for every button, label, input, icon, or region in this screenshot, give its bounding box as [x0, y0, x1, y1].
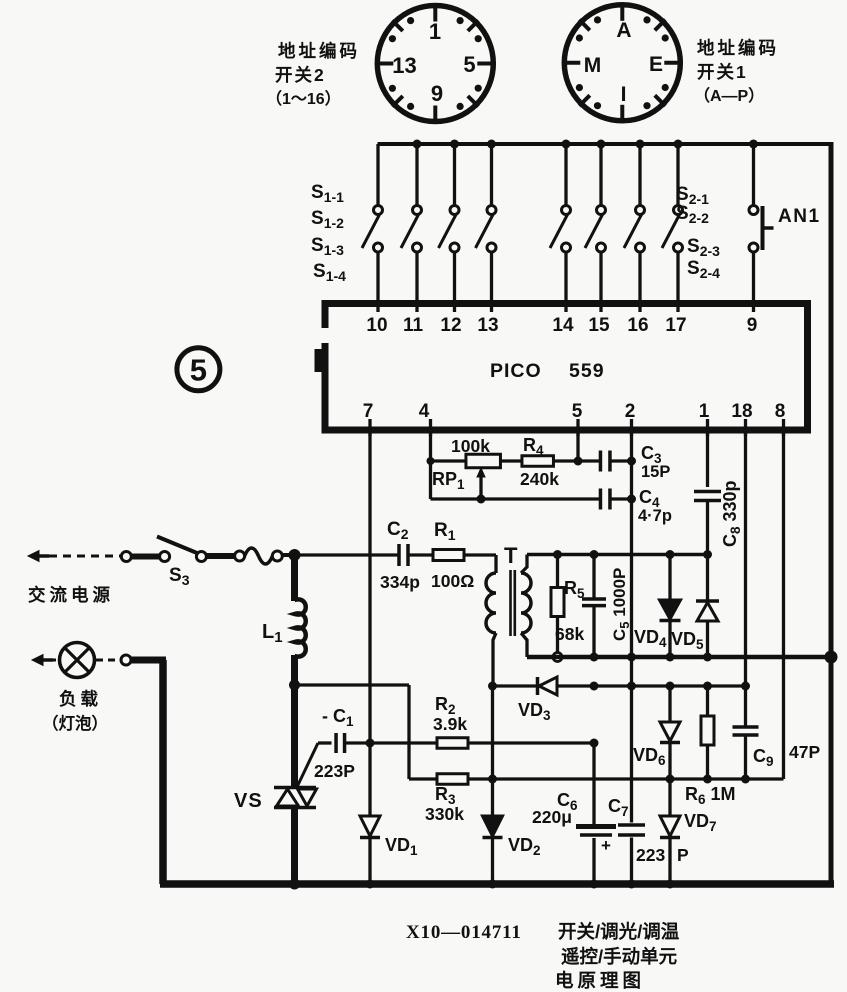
wire gate corner down — [407, 685, 410, 779]
svg-text:P: P — [677, 845, 689, 865]
diode VD4 — [660, 555, 681, 658]
wire VD2 column — [491, 686, 494, 816]
node main-top junction — [289, 549, 301, 561]
diode VD5 — [696, 555, 719, 658]
svg-text:7: 7 — [363, 401, 374, 422]
node C3-pin2 — [627, 457, 636, 466]
node R3-VD2 — [488, 775, 497, 784]
switch S2-3 — [624, 140, 645, 313]
wire VD3 row left — [493, 684, 539, 687]
svg-text:2: 2 — [625, 401, 636, 422]
wire pin7 column — [368, 433, 371, 816]
potentiometer RP1 100k — [466, 454, 501, 499]
node row686 pin18-C9 — [741, 682, 750, 691]
wire C1 diagonal to gate — [297, 743, 318, 787]
switch S1-3 — [439, 140, 460, 313]
resistor R3 330k — [437, 774, 468, 785]
wire right border — [829, 142, 834, 884]
node VD1 bus — [366, 880, 375, 889]
svg-text:11: 11 — [403, 315, 424, 336]
svg-text:16: 16 — [627, 315, 648, 336]
node RP1 wiper junction — [477, 495, 486, 504]
svg-text:+: + — [601, 836, 611, 855]
node VS bottom — [289, 879, 300, 890]
resistor R5 68k — [551, 555, 564, 653]
label address-code switch2 (1~16) — [266, 41, 360, 108]
terminal plug left — [121, 552, 131, 562]
terminal lamp — [121, 655, 131, 665]
rotary address dial switch 2 (1-16) — [375, 4, 495, 124]
node VD4 top — [666, 550, 675, 559]
wire VD3 row right — [557, 684, 746, 687]
svg-text:8: 8 — [775, 401, 786, 422]
terminal fuse right — [272, 551, 282, 561]
svg-text:15P: 15P — [641, 463, 670, 481]
svg-text:559: 559 — [569, 360, 605, 382]
svg-text:68k: 68k — [555, 624, 584, 644]
wire C2-R1 — [408, 553, 433, 556]
capacitor C8 330p — [694, 490, 721, 494]
svg-text:（灯泡）: （灯泡） — [42, 713, 108, 733]
svg-text:1: 1 — [699, 401, 710, 422]
svg-text:13: 13 — [392, 53, 416, 78]
svg-text:47P: 47P — [789, 742, 820, 762]
svg-text:5: 5 — [572, 401, 583, 422]
node C7 bus — [627, 880, 636, 889]
svg-text:223: 223 — [636, 845, 665, 865]
terminal fuse left — [235, 551, 245, 561]
wire fuse to node — [282, 553, 296, 557]
svg-text:9: 9 — [747, 315, 758, 336]
capacitor C3 15p — [599, 451, 603, 472]
inductor L1 — [295, 599, 306, 656]
svg-text:10: 10 — [366, 315, 387, 336]
wire mid bus — [527, 655, 831, 660]
node C6 bus — [590, 880, 599, 889]
wire plug link — [132, 554, 160, 560]
pin stubs bottom — [370, 419, 784, 436]
switch S2-1 — [550, 140, 571, 313]
IC left-border notch — [318, 328, 331, 343]
wire pin18 column — [744, 433, 747, 686]
svg-text:（A—P）: （A—P） — [694, 87, 764, 105]
pushbutton AN1 — [749, 140, 774, 313]
capacitor C4 4.7p — [599, 489, 603, 510]
node R6 bottom — [703, 775, 712, 784]
circled figure number 5 — [177, 348, 220, 391]
node T-VD2 junction — [488, 682, 497, 691]
wire lamp thick — [132, 657, 167, 664]
rotary address dial switch 1 (A-P) — [562, 3, 682, 123]
svg-text:334p: 334p — [380, 572, 420, 592]
label 223 P — [636, 845, 689, 865]
wire node to L1 — [291, 552, 298, 601]
wire C6 column — [592, 743, 595, 824]
wire pin8 column — [782, 433, 785, 779]
svg-text:C5 1000P: C5 1000P — [610, 568, 632, 641]
IC U1 PICO 559 box — [325, 304, 808, 431]
switch S1-2 — [401, 140, 422, 313]
wire C1 to R2 — [345, 741, 438, 744]
svg-text:3.9k: 3.9k — [433, 714, 467, 734]
wire dashed AC — [49, 555, 120, 558]
svg-text:（1～16）: （1～16） — [266, 90, 341, 108]
wire pin5 down — [576, 433, 579, 461]
node C4-pin2 — [627, 495, 636, 504]
node right-bus junction — [825, 651, 838, 664]
svg-text:PICO: PICO — [490, 360, 542, 382]
diode VD6 — [660, 686, 680, 779]
wire pin2 column — [630, 433, 633, 884]
terminal S3 right contact — [196, 552, 206, 562]
svg-text:负载: 负载 — [59, 689, 102, 709]
svg-text:12: 12 — [440, 315, 461, 336]
svg-text:I: I — [621, 83, 627, 106]
diode VD7 — [660, 779, 680, 884]
svg-text:AN1: AN1 — [778, 206, 821, 227]
resistor R2 3.9k — [437, 738, 468, 749]
wire R1 to T — [464, 553, 496, 556]
wire R3 row — [409, 777, 437, 780]
capacitor C9 47p — [733, 686, 759, 779]
wire left thick vertical — [159, 660, 167, 884]
wire pin1 down — [706, 433, 709, 487]
lamp bulb — [60, 643, 95, 678]
transformer T — [486, 555, 531, 687]
wire gate horizontal — [295, 683, 410, 686]
svg-text:A: A — [616, 19, 631, 42]
node VD2 bus — [488, 880, 497, 889]
switch S2-2 — [585, 140, 606, 313]
label address-code switch1 (A-P) — [694, 38, 779, 105]
wire S3 to fuse — [207, 553, 236, 559]
wire R2 to C6 node — [468, 741, 594, 744]
node C9 bottom — [741, 775, 750, 784]
svg-text:T: T — [504, 543, 518, 568]
svg-text:开关2: 开关2 — [275, 65, 326, 85]
node R5 top — [553, 550, 562, 559]
node VD5 bottom — [703, 653, 712, 662]
node pin2-mid — [627, 653, 636, 662]
wire L1 to VS — [291, 655, 298, 788]
wire dashed lamp-right — [96, 659, 119, 662]
resistor R6 1M — [701, 686, 714, 779]
svg-text:17: 17 — [665, 315, 686, 336]
svg-text:5: 5 — [190, 353, 207, 388]
svg-text:M: M — [584, 54, 602, 77]
svg-text:14: 14 — [552, 315, 574, 336]
wire RP1 row — [431, 459, 632, 462]
node C5 bottom — [590, 653, 599, 662]
svg-text:开关/调光/调温: 开关/调光/调温 — [558, 921, 680, 942]
node R2-C6 — [590, 739, 599, 748]
svg-text:X10—014711: X10—014711 — [406, 922, 522, 943]
node VD6 bottom-row — [666, 775, 675, 784]
terminal arrow load — [32, 655, 43, 666]
svg-text:220μ: 220μ — [532, 807, 572, 827]
terminal arrow AC in — [28, 551, 39, 562]
capacitor C5 1000p — [582, 555, 606, 658]
node C5 top — [590, 550, 599, 559]
svg-text:电原理图: 电原理图 — [555, 970, 645, 991]
node row686 C6col — [590, 682, 599, 691]
svg-text:240k: 240k — [520, 469, 559, 489]
capacitor C2 334p — [397, 544, 401, 566]
svg-text:100Ω: 100Ω — [431, 571, 474, 591]
svg-text:223P: 223P — [314, 761, 355, 781]
wire R3 to right — [468, 777, 784, 780]
node C8 bottom — [703, 550, 712, 559]
wire VS to bus — [291, 807, 298, 886]
svg-text:地址编码: 地址编码 — [278, 41, 360, 61]
diode VD2 — [483, 816, 503, 884]
svg-text:开关1: 开关1 — [697, 62, 748, 82]
wire osc line — [527, 553, 708, 557]
switch S1-4 — [476, 140, 497, 313]
terminal S3 left contact — [160, 552, 170, 562]
resistor R4 240k — [522, 456, 554, 467]
svg-text:4·7p: 4·7p — [638, 507, 672, 525]
fuse coil FU — [245, 548, 273, 564]
switch S1-1 — [362, 144, 383, 312]
capacitor C1 223p — [334, 733, 338, 753]
svg-text:330k: 330k — [425, 804, 464, 824]
switch S2-4 — [662, 140, 683, 313]
svg-text:交流电源: 交流电源 — [28, 585, 114, 605]
svg-text:13: 13 — [477, 315, 498, 336]
node pin7-gate junction — [366, 739, 375, 748]
svg-text:遥控/手动单元: 遥控/手动单元 — [561, 946, 678, 967]
triac VS — [274, 788, 317, 808]
node row686 VD6 — [666, 682, 675, 691]
wire pin4 down — [429, 433, 432, 499]
wire C8 to osc line — [706, 501, 709, 555]
svg-text:4: 4 — [419, 401, 430, 422]
wire node to C2 — [295, 553, 400, 556]
svg-text:E: E — [649, 53, 663, 76]
svg-text:R6 1M: R6 1M — [685, 784, 736, 807]
capacitor C6 220u polarized — [576, 827, 616, 885]
wire dashed lamp-left — [50, 659, 58, 662]
node pin4-junction — [427, 457, 435, 465]
switch S3 lever — [157, 537, 197, 554]
svg-text:5: 5 — [463, 52, 475, 77]
diode VD3 — [538, 677, 558, 695]
node VD4 bottom — [666, 653, 675, 662]
node row686 R6 — [703, 682, 712, 691]
node VD7 bus — [666, 880, 675, 889]
wire top bus — [378, 142, 834, 146]
svg-text:地址编码: 地址编码 — [697, 38, 779, 58]
resistor R1 100ohm — [433, 550, 464, 561]
node gate junction — [289, 680, 300, 691]
svg-text:1: 1 — [429, 19, 441, 44]
node pin5-junction — [574, 457, 583, 466]
node row686 pin2col — [627, 682, 636, 691]
label IC name PICO 559 — [490, 360, 605, 382]
wire bottom ground bus — [160, 880, 834, 888]
svg-text:VS: VS — [234, 790, 263, 812]
terminal R5 bottom circle — [553, 653, 562, 662]
svg-text:15: 15 — [588, 315, 610, 336]
diode VD1 — [360, 816, 380, 884]
wire C1 line — [318, 741, 332, 744]
wire C4 row — [431, 497, 632, 500]
svg-text:9: 9 — [431, 81, 443, 106]
svg-text:18: 18 — [731, 401, 752, 422]
svg-text:100k: 100k — [451, 436, 490, 456]
capacitor C7 223p — [618, 823, 645, 827]
svg-text:C8 330p: C8 330p — [720, 480, 743, 547]
